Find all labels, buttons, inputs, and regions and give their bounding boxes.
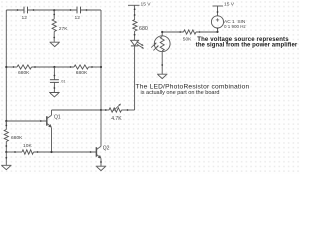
wire Q1 base y=121 [6, 120, 47, 122]
capacitor C1 value 12 (top left) [17, 7, 35, 21]
annotation: LED/PhotoResistor note line 2 [141, 90, 220, 96]
wire right rail x=101 [100, 10, 102, 110]
wire top rail (left loop top), y=10 [6, 9, 101, 11]
resistor R 4.7K variable [101, 104, 135, 122]
capacitor C2 value 12 (top middle) [70, 7, 88, 21]
svg-text:680K: 680K [18, 70, 30, 76]
power rail 15 V (LED chain) [128, 1, 151, 19]
node junction middle (cap tap) [53, 66, 55, 68]
node junction top (27K tap) [53, 9, 55, 11]
resistor R 680 [133, 20, 148, 41]
svg-text:680K: 680K [11, 135, 23, 141]
LED D1 [131, 40, 144, 48]
node junction left-rail/middle [5, 66, 7, 68]
svg-text:4.7K: 4.7K [111, 116, 122, 122]
resistor R 50K [179, 30, 200, 43]
node junction bottom-left [5, 151, 7, 153]
resistor R 680K (middle right) [70, 65, 93, 76]
svg-text:the signal from the power ampl: the signal from the power amplifier [196, 42, 298, 48]
wire photoresistor bottom [161, 52, 163, 75]
svg-text:50K: 50K [183, 36, 192, 42]
resistor R 27K vertical [52, 10, 68, 42]
resistor R 680K (left rail lower) [4, 121, 23, 152]
AC source V1 [211, 16, 246, 29]
svg-text:15 V: 15 V [141, 1, 152, 7]
svg-text:680K: 680K [76, 70, 88, 76]
wire LED chain vertical x=134.6 [134, 46, 136, 110]
annotation: voltage source note line 2 [196, 42, 298, 48]
annotation: LED/PhotoResistor note line 1 [136, 84, 250, 91]
wire 50K to AC source [196, 27, 219, 33]
svg-text:680: 680 [139, 26, 148, 32]
node junction emitter/10K [50, 151, 52, 153]
svg-text:Q1: Q1 [54, 115, 61, 121]
transistor Q2 (NPN) [96, 110, 109, 166]
transistor Q1 (NPN) [47, 110, 61, 152]
capacitor C3 value .01 (to ground) [50, 67, 66, 92]
ground under Q2 [96, 166, 106, 170]
power rail 15 V (AC source) [213, 1, 235, 15]
svg-text:10K: 10K [23, 143, 32, 149]
svg-text:12: 12 [75, 15, 81, 21]
svg-text:12: 12 [22, 15, 28, 21]
resistor R 680K (middle left) [13, 65, 36, 76]
ground under photoresistor [157, 74, 167, 78]
annotation: voltage source note line 1 [197, 37, 289, 43]
node junction left-rail/base [5, 120, 7, 122]
node junction middle/right-rail [100, 66, 102, 68]
photoresistor 50K (circle) [151, 36, 170, 52]
ground under 27K [50, 42, 60, 46]
wire left rail x=6.3 [5, 10, 7, 126]
svg-text:15 V: 15 V [224, 1, 235, 7]
svg-text:0 1 900 Hz: 0 1 900 Hz [224, 24, 247, 29]
ground under C3 [49, 93, 59, 97]
resistor R 10K [22, 143, 34, 154]
wire photoresistor top [161, 31, 183, 36]
wire bottom y=152 [6, 151, 96, 153]
ground bottom-left [1, 152, 11, 170]
svg-text:27K: 27K [59, 26, 68, 32]
wire Q1 collector y=110 [52, 109, 102, 111]
svg-text:is actually one part on the bo: is actually one part on the board [141, 90, 220, 96]
wire middle rail y=67 [6, 66, 101, 68]
node junction collector/right-rail/4.7K [100, 109, 102, 111]
svg-text:Q2: Q2 [103, 145, 110, 151]
svg-text:.01: .01 [60, 80, 65, 84]
